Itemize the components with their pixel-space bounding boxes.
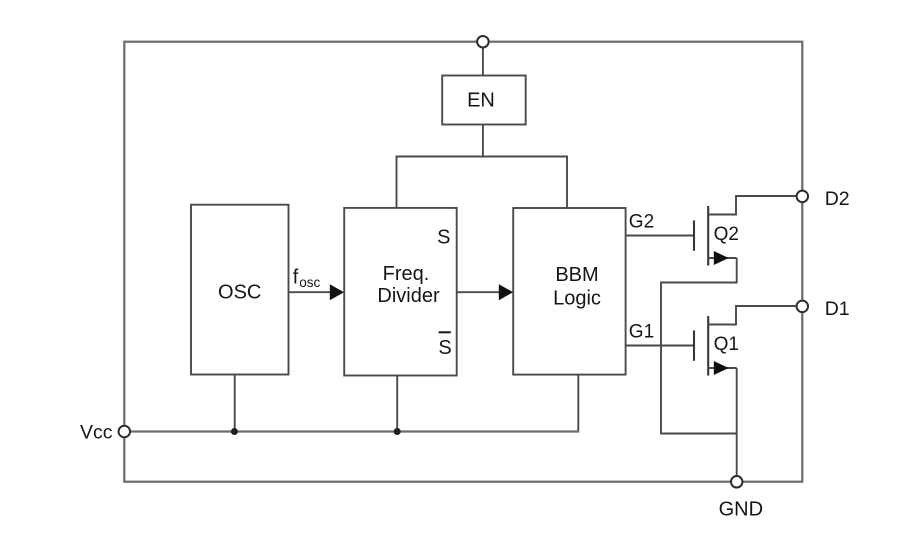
block EN <box>442 76 526 125</box>
svg-text:S: S <box>438 337 451 359</box>
wire G1 (BBM to Q1 gate) <box>626 345 694 347</box>
transistor Q2 <box>694 196 797 266</box>
wire branch horizontal <box>396 156 568 158</box>
wire Freq Divider to BBM Logic <box>457 291 501 293</box>
svg-text:Q1: Q1 <box>714 334 739 355</box>
svg-text:G2: G2 <box>629 212 654 233</box>
wire Q2 source down-around to GND node <box>661 258 737 434</box>
svg-text:Logic: Logic <box>553 287 601 309</box>
wire branch to Freq Divider top <box>396 156 398 208</box>
wire Q1 source to GND node <box>736 368 738 482</box>
svg-text:Freq.: Freq. <box>383 263 430 285</box>
svg-text:G1: G1 <box>629 322 654 343</box>
wire branch to BBM Logic top <box>566 156 568 208</box>
svg-text:osc: osc <box>299 275 320 290</box>
wire OSC bottom to Vcc rail <box>234 375 236 432</box>
arrowhead into BBM Logic <box>499 284 513 300</box>
svg-text:Q2: Q2 <box>714 224 739 245</box>
svg-text:f: f <box>293 267 299 289</box>
svg-text:D2: D2 <box>825 188 850 210</box>
wire Freq Divider bottom to Vcc rail <box>396 376 398 432</box>
svg-text:Divider: Divider <box>377 285 440 307</box>
block BBM Logic <box>513 208 625 375</box>
arrowhead into Freq Divider <box>330 284 344 300</box>
terminal circle EN pin <box>477 36 489 48</box>
terminal circle GND pin <box>731 476 743 488</box>
wire OSC to Freq Divider (fosc) <box>289 291 333 293</box>
junction dot FreqDiv/Vcc <box>394 428 401 435</box>
wire Vcc rail <box>124 430 579 432</box>
svg-text:EN: EN <box>467 89 495 111</box>
terminal circle D2 pin <box>797 191 809 203</box>
wire EN pin to EN block <box>482 42 484 76</box>
svg-text:GND: GND <box>719 498 763 520</box>
junction dot OSC/Vcc <box>231 428 238 435</box>
svg-text:D1: D1 <box>825 298 850 320</box>
svg-text:Vcc: Vcc <box>80 421 113 443</box>
svg-text:BBM: BBM <box>555 264 598 286</box>
node S-bar label (FreqDiv output complement) <box>438 332 451 359</box>
block OSC <box>191 205 289 375</box>
label fosc <box>293 267 321 291</box>
svg-text:S: S <box>437 226 450 248</box>
terminal circle D1 pin <box>797 301 809 313</box>
terminal circle Vcc pin <box>119 426 131 438</box>
outer boundary box <box>124 42 802 482</box>
transistor Q1 <box>694 306 797 376</box>
wire BBM Logic bottom to Vcc rail <box>577 375 579 432</box>
wire G2 (BBM to Q2 gate) <box>626 235 694 237</box>
svg-text:OSC: OSC <box>218 281 261 303</box>
block Freq. Divider <box>344 208 457 376</box>
wire EN block to branch <box>482 125 484 157</box>
